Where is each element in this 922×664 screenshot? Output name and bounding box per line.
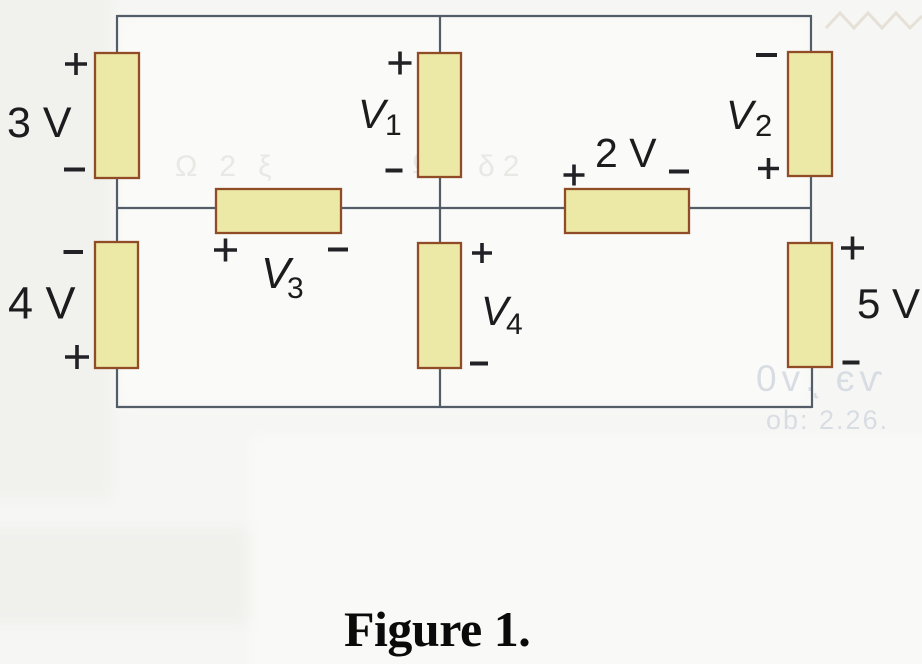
svg-text:3: 3 <box>287 272 304 305</box>
svg-text:2: 2 <box>755 108 772 143</box>
wire center branch bottom <box>439 367 441 408</box>
element box V2 <box>788 52 832 176</box>
wire right branch bottom <box>811 366 813 408</box>
element box 3V source <box>95 53 139 178</box>
polarity minus of V2 <box>756 53 777 57</box>
svg-text:5 V: 5 V <box>857 280 920 327</box>
svg-text:3 V: 3 V <box>7 99 72 147</box>
element box 4V source <box>95 242 138 368</box>
wire right branch top <box>810 15 812 53</box>
element box 5V source <box>788 243 832 367</box>
svg-text:2 V: 2 V <box>595 130 657 176</box>
wire center branch top <box>439 15 441 54</box>
svg-text:Figure 1.: Figure 1. <box>344 601 530 657</box>
wire right branch middle <box>810 175 812 244</box>
polarity plus of V2 <box>758 158 779 179</box>
polarity plus of 4V <box>65 345 89 369</box>
polarity minus of 5V <box>843 361 860 365</box>
polarity plus of V3 <box>214 239 237 262</box>
svg-text:1: 1 <box>385 109 402 142</box>
label V1 <box>358 91 402 142</box>
polarity plus of 5V <box>841 237 864 260</box>
svg-text:δ2: δ2 <box>478 150 527 183</box>
wire top horizontal <box>117 15 811 17</box>
wire middle horizontal (node row B) <box>117 207 811 209</box>
label V4 <box>481 288 523 341</box>
svg-text:4 V: 4 V <box>8 278 76 329</box>
wire left branch bottom <box>116 367 118 408</box>
wire center branch middle <box>439 176 441 244</box>
polarity plus of V1 <box>389 52 412 75</box>
polarity plus of 3V <box>65 53 87 75</box>
label V3 <box>261 249 304 305</box>
element box V4 <box>418 243 461 368</box>
polarity minus of V3 <box>328 248 348 252</box>
polarity minus of 4V <box>64 250 84 254</box>
label V2 <box>726 92 772 143</box>
polarity minus of 3V <box>64 168 85 172</box>
wire left branch top <box>116 15 118 54</box>
polarity minus of 2V <box>669 170 689 174</box>
svg-text:V: V <box>726 92 757 138</box>
svg-text:ob: 2.26.: ob: 2.26. <box>766 405 889 435</box>
svg-text:Ω2ξ: Ω2ξ <box>175 150 294 183</box>
wire left branch middle <box>116 177 118 243</box>
element box 2V source <box>565 189 689 233</box>
polarity minus of V1 <box>386 169 403 173</box>
polarity plus of V4 <box>472 243 492 263</box>
wire bottom horizontal <box>117 406 812 408</box>
polarity plus of 2V <box>564 165 585 186</box>
polarity minus of V4 <box>470 362 488 366</box>
svg-text:4: 4 <box>506 308 523 341</box>
element box V1 <box>418 53 461 177</box>
element box V3 <box>216 189 341 233</box>
